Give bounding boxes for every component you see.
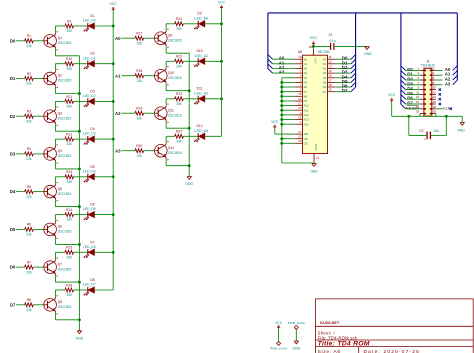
- svg-text:D4: D4: [323, 76, 327, 80]
- power VCC at J1: [388, 93, 396, 102]
- wire D2 input: [16, 115, 25, 117]
- connector J1 TD4 BUS body: [421, 59, 436, 116]
- J1 pin 19: [416, 110, 426, 115]
- svg-text:330: 330: [66, 67, 72, 71]
- wire U5 D4 output: [335, 77, 351, 79]
- wire A0 to U5 pin: [273, 58, 295, 60]
- svg-text:R18: R18: [136, 69, 142, 73]
- svg-text:2SC1815: 2SC1815: [168, 113, 182, 117]
- resistor R15 330: [65, 246, 74, 260]
- svg-text:A10: A10: [304, 104, 309, 108]
- svg-text:CE: CE: [304, 141, 308, 145]
- transistor Q8 2SC1815: [44, 295, 72, 314]
- svg-text:R24: R24: [176, 130, 182, 134]
- U5 pin 12 D1: [323, 60, 336, 66]
- svg-text:Q2: Q2: [58, 74, 63, 78]
- svg-text:A1: A1: [304, 62, 308, 66]
- svg-text:13: 13: [416, 95, 420, 99]
- resistor R5 22k: [25, 185, 34, 199]
- wire R16 to LED: [74, 289, 88, 291]
- bus vertical middle (D bus from U5): [355, 13, 357, 87]
- wire U5 A9 to ground rail: [280, 100, 294, 103]
- svg-text:A14: A14: [304, 122, 309, 126]
- svg-text:PWR_FLAG: PWR_FLAG: [288, 321, 306, 325]
- J1 pin 8: [430, 81, 436, 86]
- svg-text:D12: D12: [196, 124, 202, 128]
- LED D3 LED_D2: [83, 89, 96, 106]
- svg-text:LED_D4: LED_D4: [83, 169, 96, 173]
- ground GND (left column): [76, 331, 84, 341]
- wire U5 D3 output: [335, 72, 351, 74]
- wire R3 to Q3 base: [33, 115, 44, 117]
- resistor R24 390: [175, 130, 184, 144]
- node D3 input label: [10, 152, 16, 157]
- svg-text:22k: 22k: [26, 308, 32, 312]
- wire R6 to Q6 base: [33, 228, 44, 230]
- wire U5 A4 to ground rail: [282, 77, 295, 79]
- power VCC (second LED rail): [218, 0, 226, 9]
- bus entry RESET to J1: [401, 104, 406, 109]
- svg-text:LED_A0: LED_A0: [194, 16, 208, 20]
- J1 pin 5: [418, 76, 426, 81]
- svg-text:A0: A0: [115, 36, 121, 41]
- svg-text:14: 14: [433, 95, 437, 99]
- svg-text:D7: D7: [90, 240, 94, 244]
- wire R1 to Q1 base: [33, 40, 44, 42]
- resistor R6 22k: [25, 223, 34, 237]
- svg-text:A0: A0: [304, 57, 308, 61]
- node D4 label at U5: [342, 74, 348, 79]
- resistor R20 22k: [135, 144, 144, 158]
- svg-text:D6: D6: [10, 265, 16, 270]
- J1 pin 9: [418, 86, 426, 91]
- no-connect J1 pin 16: [439, 103, 441, 105]
- bus entry A0 from J1: [453, 66, 458, 71]
- svg-text:A6: A6: [304, 85, 308, 89]
- capacitor C1 0.1u: [328, 33, 335, 50]
- svg-text:KUNI-NET: KUNI-NET: [320, 321, 340, 325]
- U5 pin 14 GND: [314, 144, 320, 162]
- svg-text:+: +: [424, 137, 426, 141]
- bus entry D3 to J1: [401, 80, 406, 85]
- node A0 label at J1: [445, 67, 451, 72]
- node D3 label at U5: [342, 70, 348, 75]
- bus horizontal top: [268, 12, 457, 14]
- wire emitter rail left column: [78, 56, 80, 331]
- svg-text:A8: A8: [304, 94, 308, 98]
- node D4 input label: [10, 189, 16, 194]
- svg-text:15: 15: [416, 100, 420, 104]
- svg-text:R12: R12: [66, 133, 72, 137]
- bus vertical left (A bus to U5): [267, 13, 269, 69]
- svg-text:D10: D10: [196, 49, 202, 53]
- svg-text:VCC: VCC: [275, 321, 283, 325]
- wire J1 pin 8 to A3: [436, 84, 443, 86]
- title block text sheet: [318, 331, 336, 336]
- node A3 label at J1: [445, 81, 451, 86]
- svg-text:Q7: Q7: [58, 262, 63, 266]
- wire U5 A12 to ground rail: [280, 113, 294, 116]
- no-connect J1 pin 10: [439, 88, 441, 90]
- bus entry A1 from J1: [453, 71, 458, 76]
- svg-text:RESET: RESET: [406, 105, 420, 110]
- svg-text:A2: A2: [304, 67, 308, 71]
- power GND flag pair: [288, 321, 306, 351]
- svg-text:D1: D1: [10, 76, 16, 81]
- wire R22 to LED: [183, 60, 198, 62]
- svg-text:VCC: VCC: [271, 120, 279, 124]
- bus entry A3 to U5: [268, 69, 273, 74]
- svg-text:PWR_FLAG: PWR_FLAG: [270, 346, 288, 350]
- resistor R11 330: [65, 95, 74, 109]
- svg-text:2SC1815: 2SC1815: [58, 192, 72, 196]
- wire Q8 emitter: [55, 313, 80, 322]
- U5 pin 7 A3: [295, 69, 308, 75]
- resistor R21 390: [175, 17, 184, 31]
- J1 pin 12: [430, 90, 437, 95]
- wire VCC rail left column: [112, 11, 114, 290]
- transistor Q11 2SC1815: [155, 104, 182, 123]
- node D7 label at J1: [407, 101, 413, 106]
- svg-text:22k: 22k: [137, 154, 143, 158]
- wire D3 input: [16, 153, 25, 155]
- node A3 label at U5: [279, 70, 285, 75]
- svg-text:D9: D9: [197, 12, 201, 16]
- wire Q10 collector: [166, 61, 175, 68]
- wire A2 input: [121, 112, 135, 114]
- resistor R9 330: [65, 19, 74, 33]
- svg-text:LED_D3: LED_D3: [83, 132, 96, 136]
- wire LED D8 to VCC rail: [94, 289, 113, 291]
- node D2 input label: [10, 114, 16, 119]
- ground GND at C1: [364, 47, 372, 56]
- transistor Q3 2SC1815: [44, 107, 72, 126]
- svg-text:18: 18: [329, 83, 333, 87]
- resistor R23 390: [175, 92, 184, 106]
- svg-text:R7: R7: [27, 260, 31, 264]
- J1 pin 20: [430, 110, 437, 115]
- LED D1 LED_D0: [83, 14, 96, 31]
- wire Q12 emitter: [166, 159, 191, 168]
- svg-text:LED_A1: LED_A1: [194, 54, 208, 58]
- resistor R19 22k: [135, 107, 144, 121]
- wire U5 D6 output: [335, 86, 351, 88]
- svg-text:R9: R9: [67, 19, 71, 23]
- J1 pin 17: [416, 105, 426, 110]
- svg-text:12: 12: [433, 90, 437, 94]
- svg-text:R5: R5: [27, 185, 31, 189]
- title block text size: [318, 349, 341, 353]
- svg-text:WE: WE: [304, 132, 309, 136]
- wire D1 input: [16, 78, 25, 80]
- svg-text:D0: D0: [10, 38, 16, 43]
- svg-text:2SC1815: 2SC1815: [58, 116, 72, 120]
- wire R5 to Q5 base: [33, 191, 44, 193]
- svg-text:LED_D1: LED_D1: [83, 56, 96, 60]
- svg-text:390: 390: [176, 27, 182, 31]
- svg-text:A3: A3: [445, 81, 451, 86]
- wire U5 D7 output: [335, 91, 351, 93]
- node CLK label at J1: [443, 105, 451, 110]
- svg-text:Q6: Q6: [58, 225, 63, 229]
- U5 pin 2 A12: [295, 111, 310, 117]
- wire LED D6 to VCC rail: [94, 213, 114, 216]
- wire U5 CE to ground rail: [280, 142, 294, 145]
- bus entry D2 to J1: [401, 75, 406, 80]
- node D0 input label: [10, 38, 16, 43]
- wire A1 to U5 pin: [273, 63, 295, 65]
- svg-text:0.1u: 0.1u: [329, 39, 336, 43]
- svg-text:D3: D3: [90, 89, 94, 93]
- node D0 label at U5: [342, 56, 348, 61]
- bus entry A2 to U5: [268, 64, 273, 69]
- svg-text:R19: R19: [136, 107, 142, 111]
- svg-text:11: 11: [329, 55, 332, 59]
- bus entry D7 from U5: [351, 87, 356, 92]
- wire D3 to J1 pin 7: [406, 84, 420, 86]
- svg-text:11: 11: [416, 90, 419, 94]
- node D3 label at J1: [407, 81, 413, 86]
- title block text title: [318, 341, 370, 348]
- wire D7 input: [16, 304, 25, 306]
- LED D4 LED_D3: [83, 127, 96, 144]
- U5 pin 17 D5: [323, 78, 336, 84]
- transistor Q1 2SC1815: [44, 31, 72, 50]
- node D5 label at U5: [342, 79, 348, 84]
- svg-text:A2: A2: [115, 111, 121, 116]
- wire R18 to Q10 base: [144, 75, 155, 77]
- svg-text:2SC1815: 2SC1815: [168, 151, 182, 155]
- transistor Q12 2SC1815: [155, 141, 182, 160]
- U5 pin 5 A5: [295, 78, 308, 84]
- wire D0 input: [16, 40, 25, 42]
- U5 pin 6 A4: [295, 74, 308, 80]
- node A3 input label: [115, 148, 121, 153]
- wire LED D2 to VCC rail: [94, 62, 114, 65]
- svg-text:26: 26: [298, 115, 302, 119]
- wire Q8 collector: [55, 290, 65, 297]
- svg-text:22k: 22k: [26, 44, 32, 48]
- svg-text:D3: D3: [323, 71, 327, 75]
- wire Q4 emitter: [55, 162, 80, 171]
- LED D2 LED_D1: [83, 52, 96, 69]
- resistor R10 330: [65, 57, 74, 71]
- svg-text:20: 20: [298, 139, 302, 143]
- bus entry D1 from U5: [351, 59, 356, 64]
- svg-text:2SC1815: 2SC1815: [168, 38, 182, 42]
- svg-text:GND: GND: [364, 52, 372, 56]
- U5 pin 27 WE: [295, 130, 309, 136]
- svg-text:10u: 10u: [433, 129, 439, 133]
- bus entry A1 to U5: [268, 59, 273, 64]
- resistor R2 22k: [25, 72, 34, 86]
- wire R19 to Q11 base: [144, 112, 155, 114]
- wire Q1 collector: [55, 26, 65, 33]
- svg-text:22k: 22k: [26, 195, 32, 199]
- svg-text:D4: D4: [90, 127, 94, 131]
- svg-text:A7: A7: [304, 90, 308, 94]
- transistor Q2 2SC1815: [44, 69, 72, 88]
- svg-text:R23: R23: [176, 92, 182, 96]
- U5 pin 18 D6: [323, 83, 336, 89]
- wire R21 to LED: [183, 23, 198, 25]
- LED D12 LED_A3: [194, 124, 208, 142]
- svg-text:D5: D5: [90, 165, 94, 169]
- svg-text:D11: D11: [197, 87, 203, 91]
- svg-text:Date: 2020-07-25: Date: 2020-07-25: [364, 349, 421, 353]
- svg-text:22k: 22k: [137, 116, 143, 120]
- wire R17 to Q9 base: [144, 37, 155, 39]
- wire J1 pin 20 to GND rail: [436, 114, 462, 123]
- svg-text:R8: R8: [27, 298, 31, 302]
- LED D8 LED_D7: [83, 278, 96, 295]
- wire D7 to J1 pin 15: [406, 103, 420, 105]
- svg-text:OE: OE: [304, 137, 308, 141]
- wire Q4 collector: [55, 139, 65, 146]
- wire Q5 emitter: [55, 200, 80, 209]
- LED D9 LED_A0: [194, 12, 208, 30]
- svg-text:GND: GND: [310, 169, 318, 173]
- title block text KUNI-NET: [320, 321, 340, 325]
- svg-text:R16: R16: [66, 283, 72, 287]
- wire U5 D1 output: [335, 63, 351, 65]
- wire U5 A11 to ground rail: [280, 109, 294, 112]
- svg-text:LED_D5: LED_D5: [83, 207, 96, 211]
- svg-text:R3: R3: [27, 110, 31, 114]
- svg-text:28C256: 28C256: [318, 50, 330, 54]
- svg-text:D6: D6: [323, 85, 327, 89]
- wire A3 input: [121, 150, 135, 152]
- wire U5 D2 output: [335, 68, 351, 70]
- J1 pin 3: [418, 71, 426, 76]
- wire U5 D0 output: [335, 58, 351, 60]
- node D6 label at J1: [407, 96, 413, 101]
- svg-text:R10: R10: [66, 57, 72, 61]
- J1 pin 7: [418, 81, 426, 86]
- svg-text:330: 330: [66, 180, 72, 184]
- wire R24 to LED: [183, 135, 198, 137]
- node D0 label at J1: [407, 67, 413, 72]
- wire D4 input: [16, 191, 25, 193]
- wire D6 to J1 pin 13: [406, 98, 420, 100]
- op-amp U5 28C256 body: [298, 50, 330, 153]
- wire VCC to U5 WE: [275, 129, 295, 134]
- svg-text:Q9: Q9: [168, 33, 173, 37]
- node D1 input label: [10, 76, 16, 81]
- svg-text:GND: GND: [76, 337, 84, 341]
- svg-text:C1: C1: [328, 33, 332, 37]
- power VCC (left LED rail): [110, 2, 118, 11]
- wire LED D11 to VCC rail: [205, 97, 223, 100]
- svg-text:22k: 22k: [26, 270, 32, 274]
- svg-text:A11: A11: [304, 108, 309, 112]
- svg-text:Q11: Q11: [168, 108, 174, 112]
- svg-text:VCC: VCC: [388, 93, 396, 97]
- svg-text:Size: A6: Size: A6: [318, 349, 341, 353]
- svg-text:A5: A5: [304, 81, 308, 85]
- bus entry D6 to J1: [401, 95, 406, 100]
- resistor R12 330: [65, 133, 74, 147]
- svg-text:GND: GND: [185, 182, 193, 186]
- svg-text:22: 22: [298, 135, 302, 139]
- svg-text:File: TD4-ROM.sch: File: TD4-ROM.sch: [318, 335, 358, 340]
- wire Q11 collector: [166, 99, 175, 106]
- svg-text:LED_D6: LED_D6: [83, 245, 96, 249]
- wire R20 to Q12 base: [144, 150, 155, 152]
- wire Q9 collector: [166, 24, 175, 31]
- svg-text:D5: D5: [323, 81, 327, 85]
- bus entry D6 from U5: [351, 82, 356, 87]
- wire D5 input: [16, 228, 25, 230]
- node A1 input label: [115, 73, 121, 78]
- transistor Q9 2SC1815: [155, 29, 182, 48]
- wire U5 A13 to ground rail: [280, 118, 294, 121]
- title block frame: [315, 299, 473, 353]
- node A2 label at U5: [279, 65, 285, 70]
- node D6 label at U5: [342, 84, 348, 89]
- wire D6 input: [16, 266, 25, 268]
- wire U5 A8 to ground rail: [280, 95, 294, 98]
- wire R8 to Q8 base: [33, 304, 44, 306]
- wire LED D3 to VCC rail: [94, 100, 114, 103]
- svg-text:VCC: VCC: [218, 0, 226, 4]
- svg-text:17: 17: [329, 78, 333, 82]
- svg-text:28: 28: [309, 45, 313, 49]
- wire R12 to LED: [74, 138, 88, 140]
- U5 pin 9 A1: [295, 60, 308, 66]
- svg-text:390: 390: [176, 139, 182, 143]
- node A2 label at J1: [445, 77, 451, 82]
- node D5 input label: [10, 227, 16, 232]
- node D6 input label: [10, 265, 16, 270]
- svg-text:A3: A3: [115, 148, 121, 153]
- wire LED D12 to VCC rail: [205, 135, 222, 137]
- wire LED D4 to VCC rail: [94, 138, 114, 141]
- resistor R18 22k: [135, 69, 144, 83]
- U5 pin 26 A13: [295, 115, 310, 121]
- wire grounded-pin rail at U5: [281, 78, 283, 163]
- wire U5 A7 to ground rail: [280, 90, 294, 93]
- svg-text:GND: GND: [314, 144, 318, 150]
- wire C2 right leg: [431, 116, 446, 135]
- wire Q10 emitter: [166, 84, 191, 93]
- power VCC flag pair: [270, 321, 288, 351]
- svg-text:LED_D2: LED_D2: [83, 94, 96, 98]
- svg-text:D2: D2: [10, 114, 16, 119]
- svg-text:16: 16: [433, 100, 437, 104]
- U5 pin 24 A9: [295, 97, 308, 103]
- U5 pin 3 A7: [295, 88, 308, 94]
- J1 pin 14: [430, 95, 437, 100]
- wire J1 pin 18 CLK: [436, 108, 443, 110]
- svg-text:D4: D4: [10, 189, 16, 194]
- svg-text:Q12: Q12: [168, 146, 174, 150]
- node D5 label at J1: [407, 91, 413, 96]
- svg-text:2SC1815: 2SC1815: [58, 230, 72, 234]
- wire Q3 collector: [55, 101, 65, 108]
- node RESET label at J1: [406, 105, 420, 110]
- svg-text:25: 25: [298, 92, 302, 96]
- wire Q11 emitter: [166, 121, 191, 130]
- wire VCC to J1 pin 19 rail: [392, 102, 447, 118]
- capacitor C2 10u polarized: [419, 129, 439, 142]
- bus entry D0 to J1: [401, 66, 406, 71]
- title block text date: [364, 349, 421, 353]
- svg-text:22k: 22k: [26, 157, 32, 161]
- svg-text:D7: D7: [342, 88, 348, 93]
- svg-text:A9: A9: [304, 99, 308, 103]
- U5 pin 11 D0: [323, 55, 336, 61]
